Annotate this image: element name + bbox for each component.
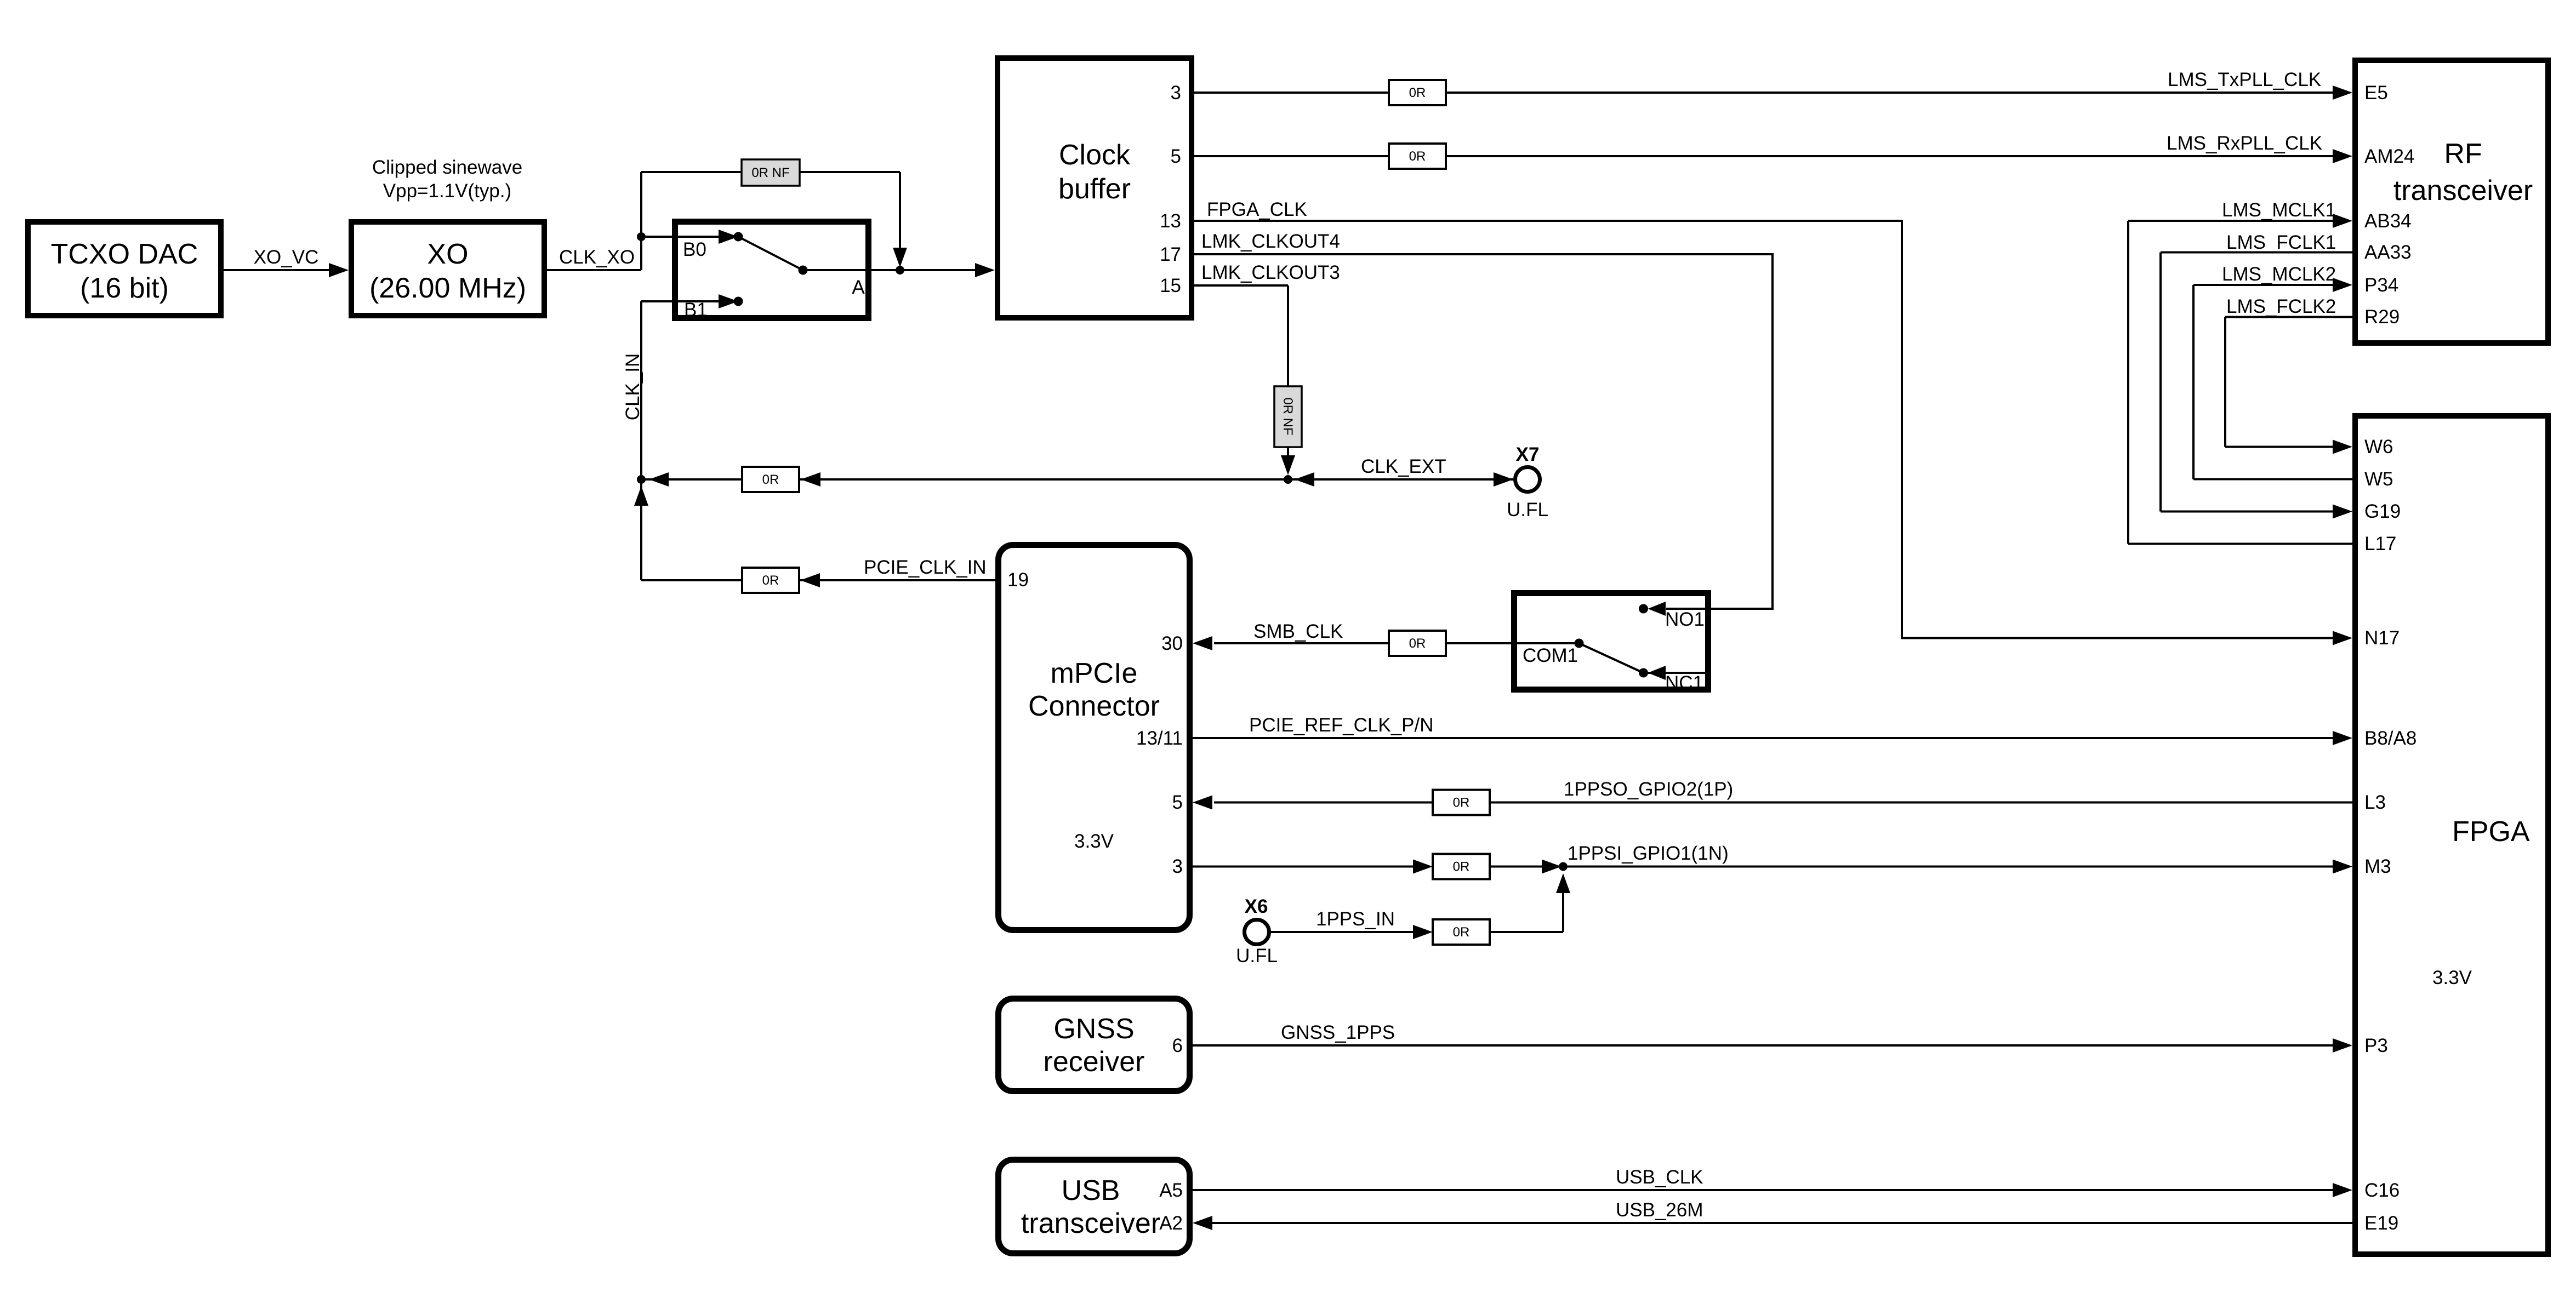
resistor 0R (TxPLL) (1389, 80, 1446, 105)
svg-text:buffer: buffer (1058, 173, 1131, 205)
wire USB_26M (1193, 1199, 2352, 1230)
svg-text:1PPSI_GPIO1(1N): 1PPSI_GPIO1(1N) (1568, 843, 1729, 864)
wire CLK_EXT (637, 456, 1514, 487)
wire XO bypass top (641, 172, 907, 267)
svg-text:LMS_FCLK2: LMS_FCLK2 (2226, 296, 2336, 317)
switch SW1 lever B0-A (738, 237, 808, 275)
svg-text:19: 19 (1007, 569, 1029, 591)
svg-text:X6: X6 (1245, 896, 1268, 917)
resistor 0R NF (CLK_EXT vertical) (1274, 386, 1302, 447)
wire CLK_XO (547, 247, 641, 270)
svg-text:Connector: Connector (1028, 690, 1160, 722)
svg-text:3: 3 (1172, 856, 1183, 877)
svg-text:0R NF: 0R NF (1280, 397, 1295, 435)
connector X7 U.FL (1507, 444, 1548, 521)
svg-text:L3: L3 (2364, 792, 2386, 813)
svg-text:13/11: 13/11 (1136, 728, 1183, 749)
svg-text:receiver: receiver (1044, 1046, 1145, 1078)
svg-text:30: 30 (1161, 633, 1183, 654)
svg-text:LMS_MCLK2: LMS_MCLK2 (2222, 264, 2336, 285)
svg-text:Clipped sinewave: Clipped sinewave (372, 157, 522, 178)
svg-text:FPGA: FPGA (2452, 816, 2530, 848)
wire B0 input (637, 230, 743, 244)
svg-text:PCIE_CLK_IN: PCIE_CLK_IN (864, 557, 987, 578)
svg-text:5: 5 (1172, 792, 1183, 813)
svg-text:(16 bit): (16 bit) (80, 272, 169, 304)
svg-text:0R: 0R (762, 472, 779, 487)
svg-text:U.FL: U.FL (1236, 945, 1278, 967)
resistor 0R (RxPLL) (1389, 144, 1446, 169)
svg-text:W5: W5 (2364, 468, 2393, 490)
wire LMS_MCLK1 (2128, 199, 2352, 544)
wire 1PPSI_GPIO1(1N) (1193, 843, 2352, 874)
svg-text:X7: X7 (1516, 444, 1540, 465)
wire LMS_RxPLL_CLK row (1194, 133, 2352, 163)
svg-text:TCXO DAC: TCXO DAC (51, 238, 198, 270)
svg-text:P3: P3 (2364, 1035, 2388, 1056)
wire LMS_FCLK1 (2161, 232, 2352, 519)
svg-text:(26.00 MHz): (26.00 MHz) (369, 272, 526, 304)
switch SW2 lever COM1-NC1 (1579, 643, 1648, 678)
wire 1PPS_IN (1271, 873, 1570, 939)
resistor 0R (PCIE_CLK_IN) (742, 568, 799, 593)
svg-text:G19: G19 (2364, 501, 2401, 522)
wire USB_CLK (1193, 1167, 2352, 1197)
wire FPGA_CLK (1194, 199, 2352, 645)
svg-text:R29: R29 (2364, 306, 2400, 328)
wire LMK_CLKOUT3 (1194, 262, 1340, 475)
svg-text:transceiver: transceiver (1021, 1208, 1160, 1239)
svg-text:U.FL: U.FL (1507, 499, 1548, 521)
wire PCIE_CLK_IN (641, 557, 995, 587)
svg-text:0R: 0R (1409, 636, 1426, 651)
svg-text:5: 5 (1171, 146, 1181, 167)
connector X6 U.FL (1236, 896, 1278, 967)
svg-text:GNSS: GNSS (1053, 1013, 1134, 1045)
wire XO_VC (224, 247, 349, 277)
resistor 0R (1PPS_IN) (1433, 919, 1490, 945)
svg-text:RF: RF (2444, 138, 2482, 170)
svg-text:E19: E19 (2364, 1213, 2398, 1234)
wire 1PPSO_GPIO2(1P) (1193, 779, 2352, 810)
svg-text:XO: XO (427, 238, 468, 270)
svg-text:B0: B0 (683, 239, 706, 260)
svg-text:NO1: NO1 (1665, 609, 1705, 630)
svg-text:SMB_CLK: SMB_CLK (1253, 621, 1343, 642)
svg-text:AB34: AB34 (2364, 210, 2412, 232)
block RF transceiver (2355, 60, 2548, 343)
wire A output to clock buffer (803, 263, 995, 277)
svg-text:17: 17 (1160, 244, 1181, 265)
svg-text:LMS_MCLK1: LMS_MCLK1 (2222, 199, 2336, 221)
svg-text:0R: 0R (1409, 85, 1426, 100)
svg-text:B8/A8: B8/A8 (2364, 728, 2417, 749)
svg-text:XO_VC: XO_VC (254, 247, 319, 268)
svg-text:A5: A5 (1159, 1180, 1183, 1201)
svg-text:USB_CLK: USB_CLK (1616, 1167, 1703, 1188)
svg-text:USB: USB (1062, 1175, 1120, 1207)
svg-text:FPGA_CLK: FPGA_CLK (1207, 199, 1307, 220)
note Clipped sinewave Vpp=1.1V(typ.) (372, 157, 522, 202)
block Clock buffer (998, 58, 1192, 318)
block XO (26.00 MHz) (351, 222, 544, 316)
svg-text:3.3V: 3.3V (2432, 967, 2472, 988)
svg-text:Clock: Clock (1059, 139, 1131, 171)
wire B1 input (641, 294, 743, 308)
svg-text:AM24: AM24 (2364, 146, 2414, 167)
wire SMB_CLK (1193, 621, 1584, 650)
svg-text:Vpp=1.1V(typ.): Vpp=1.1V(typ.) (383, 180, 511, 202)
resistor 0R (CLK_EXT) (742, 467, 799, 492)
svg-text:E5: E5 (2364, 82, 2388, 104)
svg-text:13: 13 (1160, 210, 1181, 232)
svg-text:LMK_CLKOUT4: LMK_CLKOUT4 (1201, 231, 1340, 252)
svg-text:C16: C16 (2364, 1180, 2400, 1201)
svg-text:N17: N17 (2364, 627, 2400, 649)
wire GNSS_1PPS (1193, 1022, 2352, 1053)
svg-text:LMK_CLKOUT3: LMK_CLKOUT3 (1201, 262, 1340, 283)
svg-text:NC1: NC1 (1665, 672, 1703, 694)
block FPGA (2355, 416, 2548, 1254)
svg-text:0R: 0R (762, 573, 779, 588)
wire CLK_IN vertical (622, 172, 643, 580)
svg-text:LMS_FCLK1: LMS_FCLK1 (2226, 232, 2336, 253)
svg-text:LMS_RxPLL_CLK: LMS_RxPLL_CLK (2167, 133, 2322, 154)
svg-text:GNSS_1PPS: GNSS_1PPS (1281, 1022, 1395, 1043)
wire PCIE_REF_CLK_P/N (1193, 714, 2352, 745)
svg-text:L17: L17 (2364, 533, 2396, 554)
svg-text:0R: 0R (1453, 860, 1470, 874)
block GNSS receiver (999, 999, 1190, 1091)
resistor 0R (1PPSO) (1433, 790, 1490, 815)
wire LMS_FCLK2 (2225, 296, 2352, 454)
svg-text:USB_26M: USB_26M (1616, 1199, 1703, 1221)
arrow up on CLK_IN below junction (634, 486, 648, 506)
svg-text:6: 6 (1172, 1035, 1183, 1056)
svg-text:A2: A2 (1159, 1213, 1183, 1234)
wire LMK_CLKOUT4 (1194, 231, 1773, 616)
resistor 0R (1PPSI) (1433, 854, 1490, 879)
svg-text:CLK_XO: CLK_XO (559, 247, 635, 268)
wire LMS_MCLK2 (2193, 264, 2352, 479)
svg-text:transceiver: transceiver (2393, 175, 2533, 207)
svg-text:mPCIe: mPCIe (1051, 658, 1138, 689)
block mPCIe Connector (999, 545, 1190, 930)
svg-text:W6: W6 (2364, 436, 2393, 458)
svg-text:LMS_TxPLL_CLK: LMS_TxPLL_CLK (2168, 69, 2321, 90)
svg-text:0R: 0R (1453, 796, 1470, 810)
svg-text:A: A (852, 277, 865, 298)
svg-text:0R NF: 0R NF (751, 165, 789, 180)
svg-text:P34: P34 (2364, 275, 2398, 296)
resistor 0R NF (bypass) (742, 159, 800, 186)
svg-text:COM1: COM1 (1523, 645, 1578, 666)
svg-text:3: 3 (1171, 82, 1181, 104)
svg-text:PCIE_REF_CLK_P/N: PCIE_REF_CLK_P/N (1249, 714, 1434, 736)
block SMB clock switch SW2 (1514, 593, 1708, 694)
svg-text:1PPSO_GPIO2(1P): 1PPSO_GPIO2(1P) (1564, 779, 1733, 800)
svg-text:1PPS_IN: 1PPS_IN (1316, 908, 1395, 930)
svg-text:AA33: AA33 (2364, 242, 2412, 263)
block clock source switch SW1 (675, 222, 869, 321)
svg-text:0R: 0R (1453, 925, 1470, 940)
svg-text:CLK_EXT: CLK_EXT (1361, 456, 1446, 477)
svg-text:3.3V: 3.3V (1074, 831, 1114, 852)
svg-text:15: 15 (1160, 275, 1181, 296)
svg-text:CLK_IN: CLK_IN (622, 353, 643, 421)
block USB transceiver (999, 1160, 1190, 1254)
resistor 0R (SMB_CLK) (1389, 631, 1446, 656)
wire LMS_TxPLL_CLK row (1194, 69, 2352, 100)
wire NC1 stub (1644, 666, 1709, 680)
block TCXO DAC (28, 222, 221, 316)
svg-text:M3: M3 (2364, 856, 2391, 877)
svg-text:0R: 0R (1409, 149, 1426, 164)
